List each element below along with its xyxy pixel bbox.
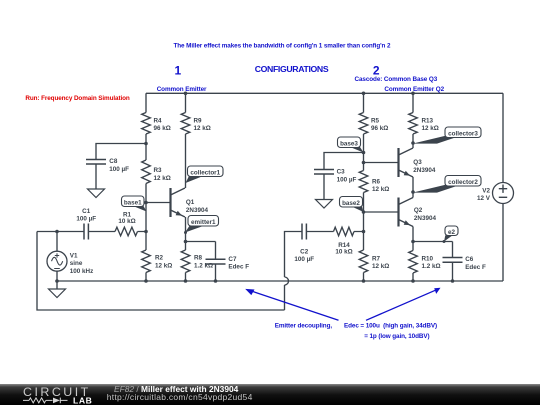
- junction Q1 base node: [144, 201, 148, 205]
- node base3: [338, 137, 364, 153]
- ground under C8: [88, 189, 105, 198]
- wire C3 branch: [324, 153, 364, 200]
- resistor R2: [142, 250, 151, 273]
- svg-text:C8: C8: [109, 158, 118, 165]
- junction emitter2 row: [411, 240, 415, 244]
- resistor R5: [359, 113, 368, 135]
- svg-text:Common Emitter: Common Emitter: [157, 86, 207, 93]
- junction rail C7: [214, 279, 218, 283]
- svg-text:100 µF: 100 µF: [337, 176, 357, 183]
- junction R1-R2 node: [144, 230, 148, 234]
- svg-text:Q2: Q2: [414, 207, 423, 214]
- svg-text:R3: R3: [154, 167, 163, 174]
- svg-text:R9: R9: [194, 117, 203, 124]
- node e2: [444, 226, 458, 242]
- wire R6 bottom / base2: [363, 193, 365, 251]
- svg-text:12 kΩ: 12 kΩ: [155, 262, 172, 269]
- svg-text:10 kΩ: 10 kΩ: [335, 249, 352, 256]
- svg-text:Edec = 100u (high gain, 34dBV: Edec = 100u (high gain, 34dBV): [344, 323, 437, 330]
- svg-text:Common Emitter Q2: Common Emitter Q2: [384, 86, 444, 93]
- svg-text:10 kΩ: 10 kΩ: [118, 218, 135, 225]
- wire V2 column: [502, 93, 504, 281]
- wire hop over ground rail: [285, 277, 289, 285]
- footer bar: [0, 384, 540, 405]
- annotation arrow right: [366, 290, 436, 320]
- wire R13 leads: [412, 93, 414, 148]
- junction base2 node: [362, 210, 366, 214]
- wire Q1 base: [146, 202, 171, 204]
- svg-text:96 kΩ: 96 kΩ: [154, 125, 171, 132]
- junction Q3 base node: [362, 161, 366, 165]
- svg-text:The Miller effect makes the ba: The Miller effect makes the bandwidth of…: [174, 43, 391, 50]
- svg-text:C3: C3: [337, 169, 346, 176]
- svg-text:12 kΩ: 12 kΩ: [372, 186, 389, 193]
- svg-text:R4: R4: [154, 117, 163, 124]
- wire C6 leads: [452, 242, 454, 282]
- anchor e2: [443, 240, 446, 243]
- junction emitter1 row: [184, 240, 188, 244]
- node collector3: [413, 127, 482, 144]
- svg-text:2N3904: 2N3904: [413, 167, 436, 174]
- svg-text:Q3: Q3: [413, 159, 422, 166]
- junction collector2 anchor: [411, 190, 415, 194]
- capacitor C8: [86, 158, 129, 173]
- svg-text:R6: R6: [372, 179, 381, 186]
- svg-text:sine: sine: [70, 260, 83, 267]
- wire input row circuit 1: [37, 231, 146, 233]
- junction rail R13: [411, 92, 415, 96]
- svg-text:100 µF: 100 µF: [294, 256, 314, 263]
- svg-text:V1: V1: [70, 252, 78, 259]
- svg-text:100 µF: 100 µF: [76, 216, 96, 223]
- annotation arrow left: [251, 291, 339, 321]
- wire Q3 base: [364, 162, 399, 164]
- junction R4-R3-C8: [144, 142, 148, 146]
- svg-text:Run: Frequency Domain Simulati: Run: Frequency Domain Simulation: [25, 95, 130, 102]
- wire R5 leads: [363, 93, 365, 170]
- footer url text: [107, 392, 253, 402]
- svg-text:100 kHz: 100 kHz: [70, 268, 93, 275]
- node collector1: [186, 166, 224, 183]
- junction rail R10: [411, 279, 415, 283]
- svg-text:base3: base3: [340, 141, 358, 148]
- junction rail C6: [451, 279, 455, 283]
- svg-text:collector3: collector3: [448, 131, 478, 138]
- svg-text:emitter1: emitter1: [191, 219, 216, 226]
- wire R4 leads: [145, 93, 147, 160]
- wire Q2 emitter column: [412, 227, 414, 242]
- wire R7 bottom lead: [363, 273, 365, 282]
- ground under V1: [49, 289, 66, 298]
- wire R3 lead / base node: [145, 184, 147, 251]
- node base2: [340, 197, 364, 213]
- svg-text:Q1: Q1: [186, 199, 195, 206]
- svg-text:96 kΩ: 96 kΩ: [371, 125, 388, 132]
- wire C8 branch: [96, 144, 146, 190]
- resistor R3: [142, 160, 151, 184]
- resistor R6: [359, 171, 368, 193]
- resistor R4: [142, 113, 151, 135]
- capacitor C2: [294, 224, 314, 264]
- svg-text:2N3904: 2N3904: [186, 207, 209, 214]
- resistor R14: [334, 227, 355, 236]
- capacitor C1: [76, 208, 96, 240]
- junction rail R8: [184, 279, 188, 283]
- svg-text:12 kΩ: 12 kΩ: [422, 125, 439, 132]
- resistor R13: [409, 113, 418, 135]
- svg-text:V2: V2: [482, 188, 490, 195]
- svg-text:collector1: collector1: [190, 170, 220, 177]
- svg-text:12 V: 12 V: [477, 195, 491, 202]
- svg-text:R8: R8: [194, 255, 203, 262]
- svg-text:= 1p (low gain, 10dBV): = 1p (low gain, 10dBV): [364, 333, 429, 340]
- svg-text:Emitter decoupling,: Emitter decoupling,: [275, 323, 333, 330]
- svg-text:1.2 kΩ: 1.2 kΩ: [422, 263, 441, 270]
- wire emitter2 node row: [413, 241, 453, 243]
- svg-text:C2: C2: [300, 248, 309, 255]
- wire R9 leads: [185, 93, 187, 188]
- svg-text:12 kΩ: 12 kΩ: [372, 263, 389, 270]
- wire emitter node row: [186, 241, 216, 243]
- junction base3 node: [362, 151, 366, 155]
- svg-text:C6: C6: [465, 256, 474, 263]
- svg-text:base2: base2: [342, 200, 360, 207]
- node collector2: [413, 176, 482, 193]
- node emitter1: [185, 216, 219, 233]
- wire input loop to circuit 2: [37, 232, 302, 311]
- junction rail R5: [362, 92, 366, 96]
- svg-text:12 kΩ: 12 kΩ: [194, 125, 211, 132]
- junction R14 node: [362, 230, 366, 234]
- wire R2 bottom lead: [145, 273, 147, 282]
- wire ground rail: [57, 280, 503, 282]
- capacitor C7: [206, 256, 250, 271]
- voltage source V1: [47, 251, 93, 275]
- svg-text:R13: R13: [422, 117, 434, 124]
- svg-text:Cascode: Common Base Q3: Cascode: Common Base Q3: [355, 76, 438, 83]
- ground under C3: [316, 200, 333, 209]
- svg-text:R2: R2: [155, 255, 164, 262]
- svg-text:base1: base1: [124, 200, 142, 207]
- CircuitLab logo: [0, 384, 100, 405]
- footer title text: [114, 384, 238, 394]
- wire Q1 emitter column: [185, 217, 187, 242]
- svg-text:1: 1: [174, 63, 181, 77]
- transistor Q2: [399, 198, 437, 227]
- wire R10 leads: [412, 242, 414, 282]
- resistor R9: [181, 113, 190, 135]
- capacitor C3: [314, 169, 356, 184]
- junction rail R7: [362, 279, 366, 283]
- junction rail R2: [144, 279, 148, 283]
- resistor R7: [359, 250, 368, 273]
- svg-text:C1: C1: [82, 208, 91, 215]
- resistor R1: [115, 227, 138, 236]
- svg-text:R5: R5: [371, 117, 380, 124]
- transistor Q1: [171, 188, 209, 217]
- svg-text:Edec F: Edec F: [228, 264, 249, 271]
- junction rail R9: [184, 92, 188, 96]
- wire C7 leads: [215, 242, 217, 282]
- svg-text:100 µF: 100 µF: [109, 166, 129, 173]
- wire input row circuit 2: [306, 231, 363, 233]
- svg-text:R10: R10: [422, 255, 434, 262]
- wire R8 leads: [185, 242, 187, 282]
- junction collector3 anchor: [411, 141, 415, 145]
- svg-text:12 kΩ: 12 kΩ: [154, 175, 171, 182]
- wire top supply rail: [146, 92, 503, 94]
- svg-text:collector2: collector2: [448, 179, 478, 186]
- anchor emitter1: [184, 231, 187, 234]
- voltage source V2: [477, 183, 513, 204]
- svg-text:2N3904: 2N3904: [414, 215, 437, 222]
- resistor R10: [409, 251, 418, 274]
- wire V1 leads: [56, 232, 58, 290]
- svg-text:CONFIGURATIONS: CONFIGURATIONS: [255, 64, 329, 74]
- svg-text:Edec F: Edec F: [465, 264, 486, 271]
- svg-text:LAB: LAB: [73, 395, 92, 405]
- svg-text:C7: C7: [228, 256, 237, 263]
- junction rail V1: [55, 279, 59, 283]
- transistor Q3: [399, 148, 436, 177]
- svg-text:e2: e2: [448, 229, 456, 236]
- wire Q2 base: [364, 211, 399, 213]
- capacitor C6: [443, 256, 486, 271]
- node base1: [122, 196, 147, 212]
- svg-text:R7: R7: [372, 255, 381, 262]
- junction V1 top: [55, 230, 59, 234]
- wire Q3-Q2 cascode link: [412, 177, 414, 198]
- resistor R8: [181, 250, 190, 273]
